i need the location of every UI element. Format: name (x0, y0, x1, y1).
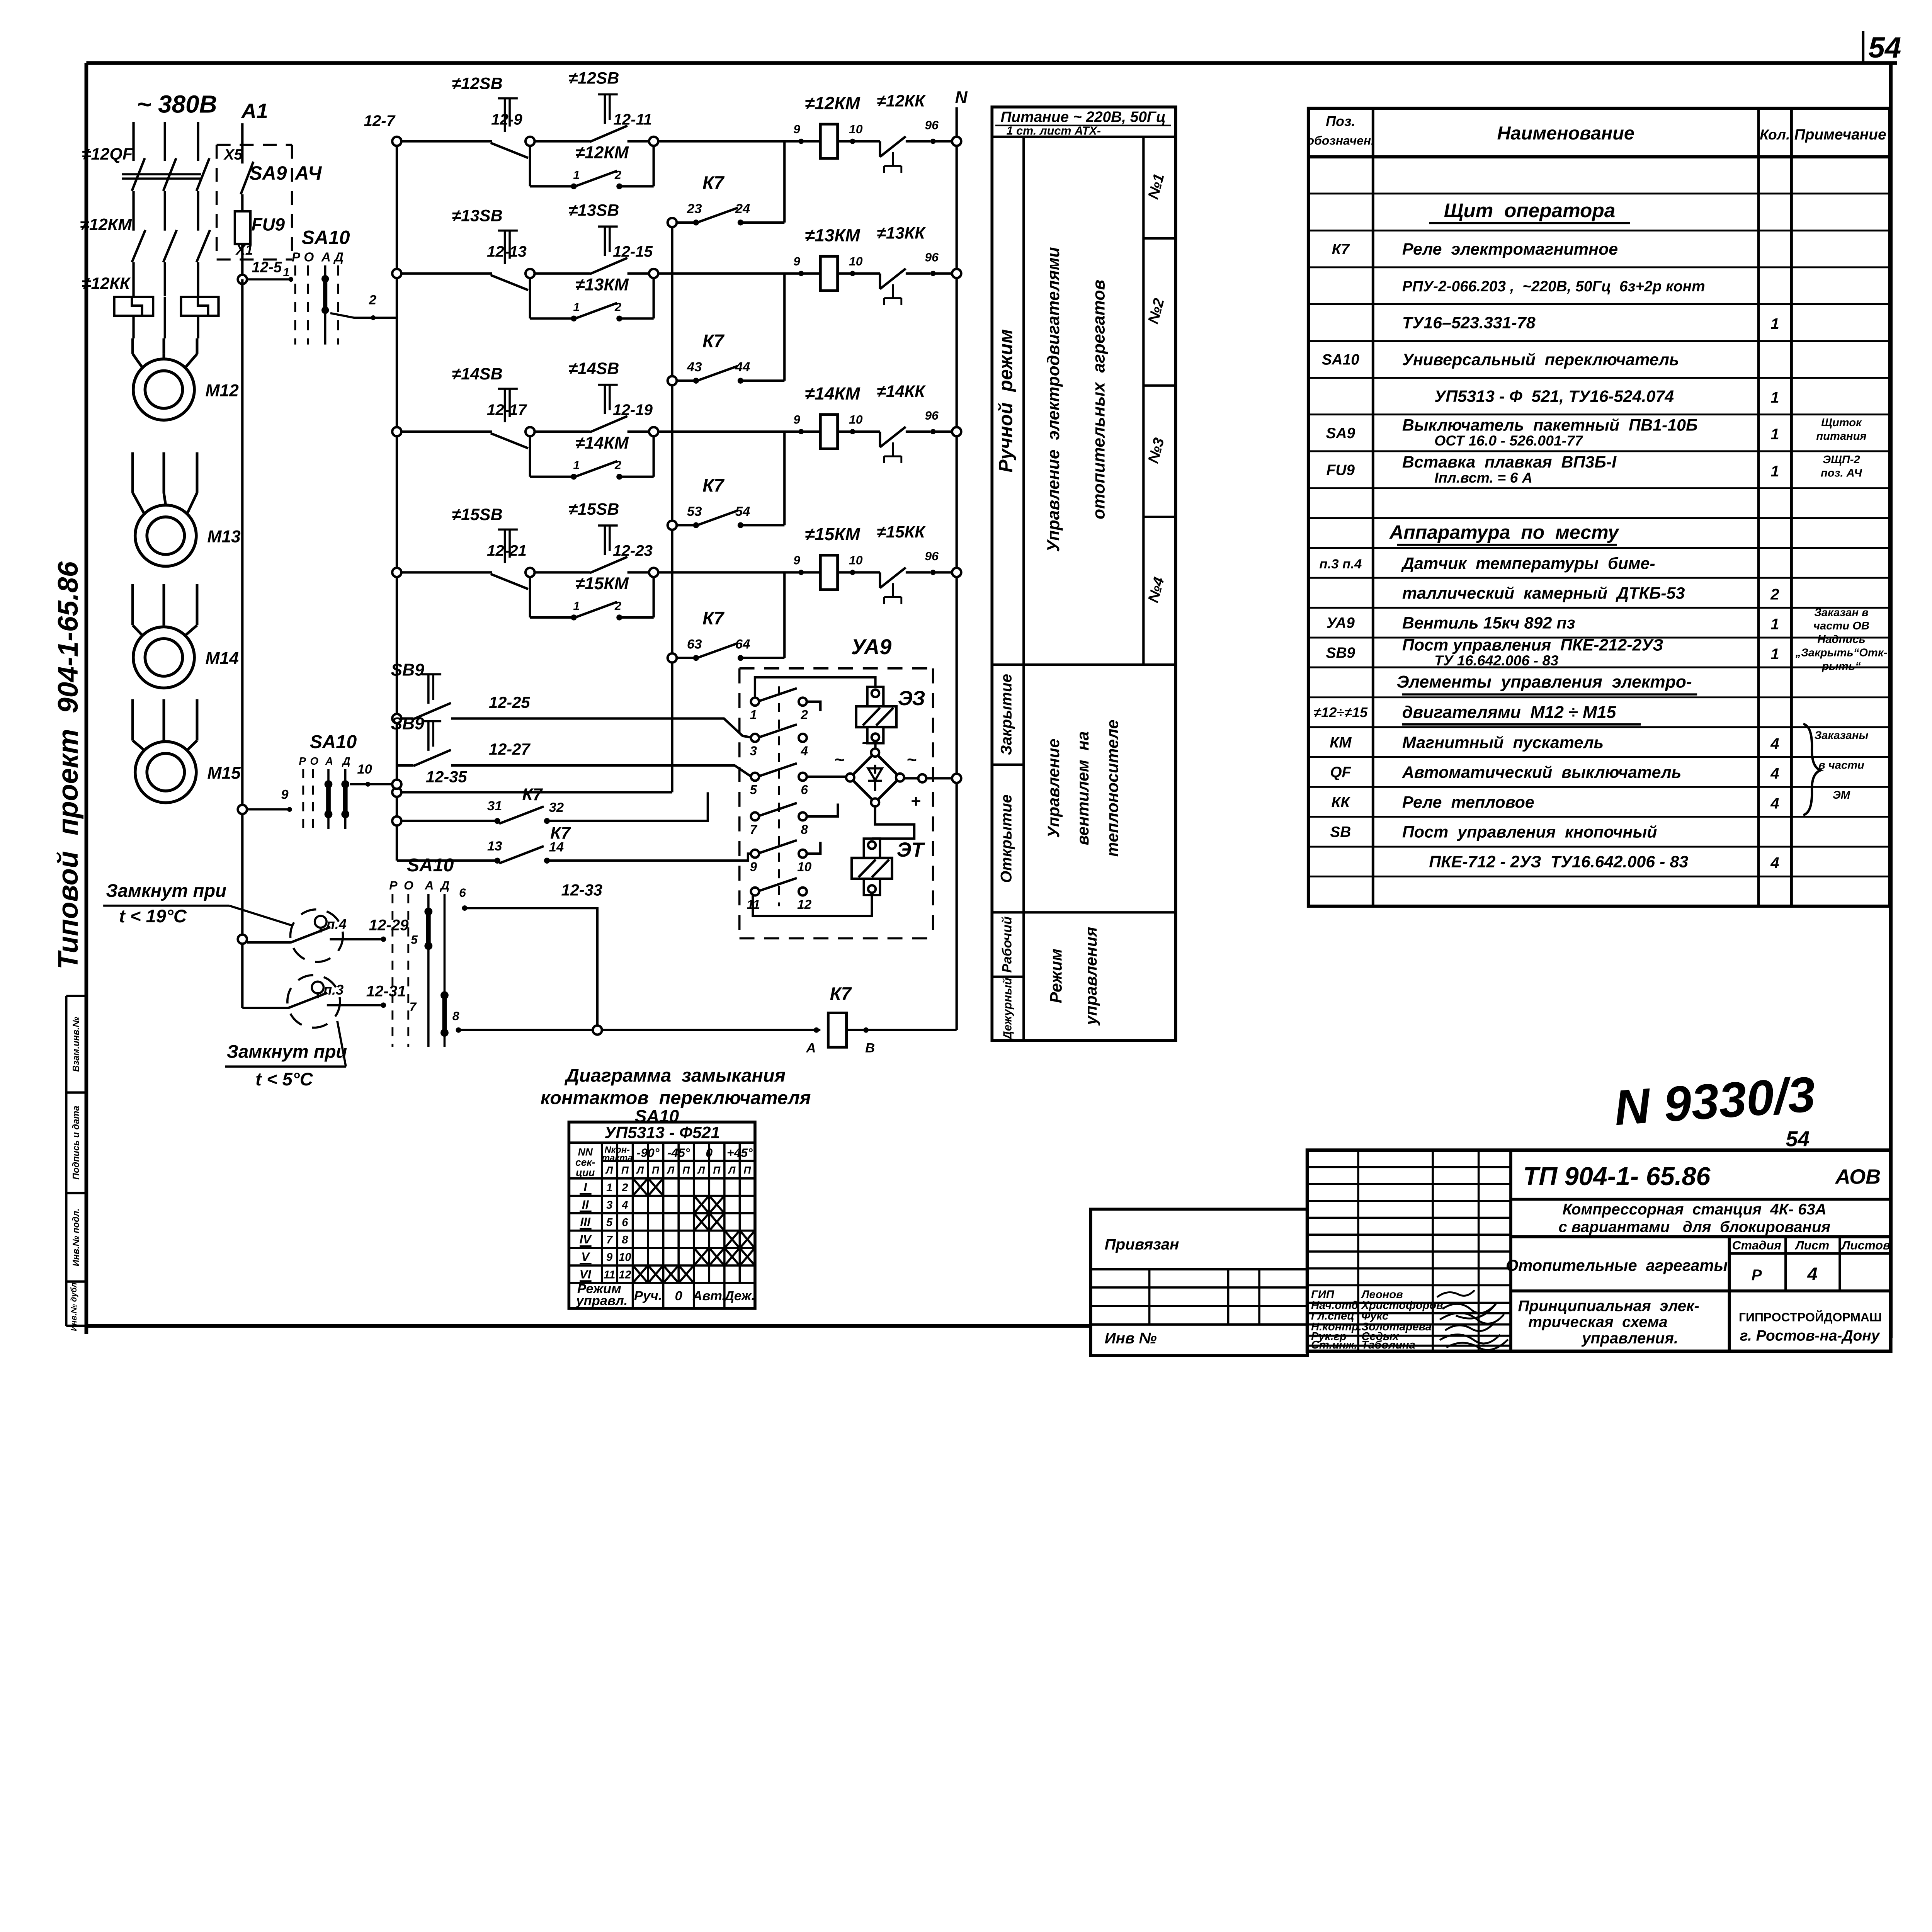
parts row КК (1331, 789, 1850, 812)
parts row SB9 (1326, 633, 1888, 672)
svg-text:Реле тепловое: Реле тепловое (1402, 793, 1534, 812)
svg-text:управл.: управл. (575, 1294, 628, 1308)
svg-text:К7: К7 (1332, 241, 1350, 258)
УА9 switch contact 11-12 (747, 878, 811, 912)
svg-text:Заказан в: Заказан в (1814, 607, 1869, 619)
pushbutton SB9 (row 12-27) (397, 764, 413, 767)
svg-text:12-29: 12-29 (369, 917, 409, 934)
NO pushbutton contact ≠12SB (568, 69, 627, 142)
SA10 diagram row I (580, 1179, 662, 1195)
svg-text:такта: такта (602, 1153, 633, 1163)
svg-text:2: 2 (621, 1182, 628, 1194)
parts row ПКЕ-712 (1429, 853, 1779, 872)
svg-text:Ст.инж.: Ст.инж. (1311, 1339, 1357, 1351)
svg-text:96: 96 (925, 250, 939, 264)
svg-text:УА9: УА9 (851, 635, 891, 659)
svg-text:12-11: 12-11 (614, 111, 652, 128)
svg-text:-45°: -45° (667, 1146, 690, 1160)
NC pushbutton contact ≠14SB (452, 365, 528, 448)
svg-text:I: I (583, 1180, 587, 1194)
svg-text:контактов переключателя: контактов переключателя (541, 1087, 811, 1108)
contactor coil ≠14КМ (793, 384, 863, 449)
svg-text:≠14КК: ≠14КК (877, 382, 926, 401)
solenoid ЭЗ (856, 687, 925, 753)
node 12-5 wire to SA10 (238, 259, 293, 284)
svg-text:АЧ: АЧ (294, 162, 322, 184)
motor М15 (133, 699, 241, 803)
svg-text:Инв.№ подл.: Инв.№ подл. (71, 1208, 81, 1266)
NC pushbutton contact ≠15SB (452, 505, 528, 589)
parts row SA9 (1326, 416, 1867, 449)
NC pushbutton contact ≠13SB (452, 206, 528, 290)
SA10 diagram row IV (580, 1232, 754, 1247)
svg-text:отопительных агрегатов: отопительных агрегатов (1090, 280, 1109, 519)
svg-text:трическая схема: трическая схема (1528, 1313, 1668, 1331)
svg-text:Авт.: Авт. (692, 1289, 726, 1303)
svg-text:Ручной режим: Ручной режим (995, 329, 1016, 473)
svg-text:Р: Р (299, 755, 306, 767)
svg-text:в части: в части (1818, 759, 1864, 771)
svg-text:~: ~ (834, 750, 844, 769)
svg-text:12-15: 12-15 (613, 243, 653, 260)
svg-text:К7: К7 (830, 983, 852, 1004)
svg-text:12-33: 12-33 (561, 881, 602, 899)
svg-text:Л: Л (667, 1165, 675, 1176)
K7 pilot-relay vertical link (670, 223, 674, 792)
svg-text:≠13КМ: ≠13КМ (575, 275, 629, 294)
svg-text:К7: К7 (702, 331, 725, 351)
svg-text:В: В (865, 1041, 875, 1055)
svg-text:Элементы управления электро-: Элементы управления электро- (1397, 673, 1692, 692)
svg-text:54: 54 (735, 504, 750, 519)
svg-text:ции: ции (576, 1167, 595, 1178)
svg-text:SB9: SB9 (391, 714, 424, 733)
svg-text:ТП 904-1- 65.86: ТП 904-1- 65.86 (1523, 1162, 1711, 1191)
svg-text:п.4: п.4 (327, 916, 347, 932)
svg-text:12-7: 12-7 (364, 112, 396, 129)
svg-text:12-9: 12-9 (491, 111, 522, 128)
parts row QF (1330, 759, 1864, 782)
svg-text:43: 43 (687, 360, 702, 374)
node 12-19 (613, 401, 820, 436)
node 12-13 (487, 243, 590, 278)
node 96 on N bus (14КМ) (952, 427, 961, 436)
svg-text:1: 1 (573, 301, 580, 314)
thermal relay contact ≠14КК (838, 382, 952, 463)
SA10 linkage dashed line in УА9 (777, 686, 780, 906)
svg-text:Х5: Х5 (223, 146, 243, 163)
svg-text:≠12SB: ≠12SB (568, 69, 619, 87)
svg-text:12-31: 12-31 (366, 982, 406, 1000)
svg-text:1: 1 (606, 1182, 612, 1194)
svg-text:63: 63 (687, 637, 702, 651)
svg-text:ПКЕ-712 - 2УЗ ТУ16.642.006 -: ПКЕ-712 - 2УЗ ТУ16.642.006 - 83 (1429, 853, 1688, 871)
left margin stamp column (66, 996, 86, 1331)
wire bridge output to K7 coil (955, 778, 958, 1030)
svg-text:≠15SB: ≠15SB (568, 500, 619, 519)
svg-text:Инв.№ дубл.: Инв.№ дубл. (70, 1280, 78, 1331)
svg-text:Л: Л (728, 1165, 736, 1176)
motor М12 (133, 338, 239, 420)
svg-text:≠13SB: ≠13SB (568, 201, 619, 220)
svg-text:10: 10 (849, 412, 863, 426)
title block middle row (1506, 1237, 1891, 1351)
svg-text:≠13КМ: ≠13КМ (805, 225, 860, 245)
wire node 9 (A1 to SA10) (238, 787, 292, 814)
thermal relay contact ≠12КК (838, 92, 952, 173)
svg-text:Р: Р (1752, 1266, 1762, 1284)
parts row: section Элементы управления (1397, 673, 1697, 694)
svg-text:К7: К7 (702, 608, 725, 628)
parts row: section Щит оператора (1429, 199, 1630, 223)
wire contact 2 jog (807, 702, 820, 711)
svg-text:≠14КМ: ≠14КМ (805, 384, 860, 403)
svg-text:≠14SB: ≠14SB (452, 365, 502, 383)
svg-text:10: 10 (849, 122, 863, 136)
svg-text:1: 1 (573, 600, 580, 613)
УА9 switch contact 3-4 (750, 724, 808, 759)
wire contact1 to ЭЗ (755, 677, 876, 698)
node 12-23 (613, 542, 820, 577)
svg-text:7: 7 (606, 1234, 613, 1246)
svg-text:Компрессорная станция 4К- 63: Компрессорная станция 4К- 63А (1563, 1201, 1827, 1218)
wire ЭТ to contact 11 (753, 895, 872, 916)
svg-text:-90°: -90° (637, 1146, 660, 1160)
svg-text:9: 9 (281, 787, 289, 802)
svg-text:9: 9 (793, 254, 800, 268)
svg-text:SA10: SA10 (310, 731, 357, 752)
parts row РПУ (1402, 278, 1705, 295)
svg-text:Лист: Лист (1795, 1238, 1830, 1252)
svg-text:П: П (652, 1165, 660, 1176)
svg-text:„Закрыть“Отк-: „Закрыть“Отк- (1795, 647, 1888, 659)
svg-text:≠12КМ: ≠12КМ (80, 215, 132, 234)
wire bridge to N bus (904, 774, 961, 783)
svg-text:Пост управления ПКЕ-212-2УЗ: Пост управления ПКЕ-212-2УЗ (1402, 636, 1663, 654)
node 96 on N bus (15КМ) (952, 568, 961, 577)
svg-text:+: + (911, 792, 921, 811)
svg-text:Iпл.вст. = 6 А: Iпл.вст. = 6 А (1434, 469, 1532, 486)
three phase supply lines (134, 122, 198, 161)
NO pushbutton contact ≠13SB (568, 201, 627, 274)
svg-text:SA9: SA9 (249, 162, 287, 184)
title block document number row (1511, 1162, 1891, 1199)
svg-text:t < 19°С: t < 19°С (119, 906, 187, 926)
svg-text:12: 12 (619, 1269, 631, 1281)
svg-text:14: 14 (549, 840, 564, 855)
svg-text:10: 10 (357, 762, 372, 777)
relay contact K7 (63-64) (668, 572, 785, 662)
svg-text:Вентиль 15кч 892 пз: Вентиль 15кч 892 пз (1402, 614, 1575, 632)
svg-text:Управление электродвигателями: Управление электродвигателями (1044, 247, 1063, 552)
svg-text:Д: Д (439, 878, 449, 892)
self-hold contact 12КМ (1-2) (530, 143, 654, 189)
svg-text:8: 8 (622, 1234, 628, 1246)
svg-text:Щит оператора: Щит оператора (1444, 199, 1616, 221)
svg-text:Отопительные агрегаты: Отопительные агрегаты (1506, 1256, 1728, 1274)
fuse FU9 (235, 211, 285, 279)
svg-text:≠12КМ: ≠12КМ (805, 93, 860, 113)
label Питание ~220В,50Гц (995, 109, 1171, 138)
svg-text:ЭЗ: ЭЗ (898, 687, 925, 710)
parts row SA10 (1322, 350, 1679, 369)
svg-text:10: 10 (619, 1251, 631, 1264)
svg-text:≠14КМ: ≠14КМ (575, 434, 629, 452)
svg-text:Рабочий: Рабочий (1000, 917, 1014, 973)
svg-text:≠12÷≠15: ≠12÷≠15 (1313, 704, 1368, 720)
NO pushbutton contact ≠15SB (568, 500, 627, 573)
svg-text:А: А (325, 755, 333, 767)
svg-text:Заказаны: Заказаны (1815, 729, 1869, 742)
svg-text:9: 9 (606, 1251, 613, 1264)
svg-text:0: 0 (706, 1146, 713, 1160)
parts row ТУ16-523 (1402, 313, 1779, 332)
relay contact K7 (23-24) (668, 141, 785, 227)
svg-text:≠15КМ: ≠15КМ (805, 524, 860, 544)
switch SA9 (241, 145, 322, 211)
svg-text:2: 2 (1770, 585, 1779, 603)
svg-text:двигателями М12 ÷ М15: двигателями М12 ÷ М15 (1402, 703, 1617, 722)
svg-text:ТУ 16.642.006 - 83: ТУ 16.642.006 - 83 (1434, 652, 1558, 668)
svg-text:Р: Р (292, 250, 301, 265)
svg-text:24: 24 (735, 202, 750, 216)
svg-text:SA9: SA9 (1326, 425, 1355, 442)
svg-text:с вариантами для блокирован: с вариантами для блокирования (1558, 1218, 1830, 1235)
title block object name (1511, 1201, 1891, 1237)
title block signatures text (1311, 1289, 1443, 1351)
svg-text:Питание ~ 220В, 50Гц: Питание ~ 220В, 50Гц (1000, 109, 1165, 126)
ladder left bus (395, 141, 398, 861)
contactor coil ≠12КМ (793, 93, 863, 158)
svg-text:5: 5 (411, 932, 418, 946)
svg-text:управления: управления (1082, 927, 1100, 1026)
pushbutton SB9 (row 12-25) (392, 714, 413, 723)
callout closed at t<5C (225, 1021, 347, 1089)
svg-text:5: 5 (606, 1216, 613, 1229)
svg-text:8: 8 (801, 823, 808, 837)
svg-text:Реле электромагнитное: Реле электромагнитное (1402, 240, 1618, 259)
svg-text:А: А (321, 250, 331, 265)
svg-text:2: 2 (800, 708, 808, 722)
svg-text:FU9: FU9 (1327, 462, 1355, 479)
brace in notes column (1803, 724, 1820, 815)
svg-text:РПУ-2-066.203 , ~220В, 50Гц: РПУ-2-066.203 , ~220В, 50Гц 6з+2р конт (1402, 278, 1705, 295)
title block bottom row (1518, 1297, 1882, 1347)
УА9 switch contact 1-2 (750, 688, 808, 722)
SA10 diagram row II (580, 1197, 723, 1212)
svg-text:Привязан: Привязан (1105, 1235, 1179, 1253)
solenoid ЭТ (852, 838, 925, 895)
svg-text:Руч.: Руч. (634, 1289, 662, 1303)
svg-text:Выключатель пакетный ПВ1-10Б: Выключатель пакетный ПВ1-10Б (1402, 416, 1698, 434)
svg-text:Универсальный переключатель: Универсальный переключатель (1402, 350, 1679, 369)
parts row SB (1330, 823, 1657, 842)
drawing frame border (86, 63, 1897, 1338)
relay coil K7 (А-В) (602, 983, 957, 1055)
УА9 switch contact 7-8 (750, 803, 808, 837)
svg-text:Надпись: Надпись (1817, 633, 1865, 646)
svg-text:FU9: FU9 (252, 215, 285, 235)
parts table frame (1308, 108, 1889, 906)
sheet number 54 top right (1863, 31, 1901, 64)
svg-text:≠13КК: ≠13КК (877, 224, 926, 243)
svg-text:32: 32 (549, 800, 564, 815)
svg-text:таллический камерный ДТКБ-53: таллический камерный ДТКБ-53 (1402, 584, 1685, 602)
svg-text:Диаграмма замыкания: Диаграмма замыкания (564, 1065, 786, 1086)
svg-text:9: 9 (793, 553, 800, 567)
svg-text:ЭЩП-2: ЭЩП-2 (1823, 454, 1860, 466)
parts table header (1307, 113, 1886, 148)
svg-text:Поз.: Поз. (1326, 113, 1355, 129)
svg-text:Датчик температуры биме-: Датчик температуры биме- (1401, 554, 1655, 573)
svg-text:9: 9 (750, 860, 757, 874)
svg-text:≠12SB: ≠12SB (452, 74, 502, 93)
svg-text:12-25: 12-25 (489, 693, 530, 711)
node 96 on N bus (12КМ) (952, 137, 961, 146)
svg-text:SВ: SВ (1330, 824, 1351, 840)
svg-text:О: О (310, 755, 318, 767)
svg-text:1: 1 (1770, 425, 1779, 443)
self-hold contact 15КМ (1-2) (530, 574, 654, 620)
svg-text:Стадия: Стадия (1732, 1238, 1781, 1252)
svg-text:–: – (862, 731, 873, 752)
svg-text:N: N (955, 88, 968, 107)
thermal relay heaters KK (≠12КК) (82, 274, 219, 338)
svg-text:4: 4 (621, 1199, 628, 1211)
relay contact K7 (13-14) (397, 823, 755, 864)
parts row п.3 п.4 (1319, 554, 1655, 573)
svg-text:1: 1 (573, 168, 580, 182)
svg-text:1: 1 (1770, 616, 1779, 633)
motor М13 (133, 452, 241, 566)
svg-text:9: 9 (793, 122, 800, 136)
svg-text:1: 1 (1770, 463, 1779, 480)
title block signature grid (1307, 1150, 1511, 1351)
svg-text:О: О (404, 878, 413, 892)
svg-text:АОВ: АОВ (1835, 1165, 1881, 1188)
svg-text:УА9: УА9 (1327, 615, 1355, 631)
svg-text:8: 8 (452, 1009, 459, 1023)
SA10 diagram header text (575, 1123, 753, 1178)
svg-text:96: 96 (925, 549, 939, 563)
svg-text:VI: VI (580, 1267, 592, 1281)
svg-text:ЭТ: ЭТ (897, 838, 925, 861)
motor М14 (133, 584, 238, 688)
node 12-9 (491, 111, 590, 146)
svg-text:К7: К7 (702, 172, 725, 193)
parts row ≠12÷≠15 (1313, 703, 1641, 724)
svg-text:А: А (424, 878, 434, 892)
УА9 switch contact 9-10 (750, 840, 811, 874)
parts row ДТКБ (1402, 584, 1779, 603)
svg-text:Д: Д (333, 250, 344, 265)
parts table row lines (1308, 194, 1889, 906)
labels №1-№4 (vertical) (1145, 172, 1168, 604)
title: Диаграмма замыкания контактов переключателя SA10 (541, 1065, 811, 1126)
svg-text:≠12QF: ≠12QF (82, 145, 133, 163)
wire 12-27 (451, 740, 751, 776)
svg-text:+45°: +45° (727, 1146, 753, 1160)
svg-text:Примечание: Примечание (1794, 126, 1886, 143)
svg-text:Х1: Х1 (235, 242, 253, 258)
svg-text:≠15КК: ≠15КК (877, 523, 926, 541)
svg-text:64: 64 (735, 637, 750, 651)
circuit breaker QF (≠12QF) 3-pole (82, 145, 209, 231)
parts row K7 (1332, 240, 1618, 259)
contactor coil ≠15КМ (793, 524, 863, 590)
svg-text:А: А (806, 1041, 816, 1055)
svg-text:П: П (713, 1165, 721, 1176)
title block frame (1307, 1150, 1891, 1351)
svg-text:Дежурный: Дежурный (1001, 978, 1014, 1041)
svg-text:II: II (582, 1197, 589, 1211)
wire contact 10 jog (807, 842, 820, 854)
svg-text:54: 54 (1868, 31, 1901, 64)
svg-text:части ОВ: части ОВ (1813, 620, 1869, 632)
temperature sensor contact п.3 (242, 975, 417, 1028)
parts row FU9 (1327, 453, 1863, 486)
svg-text:t < 5°С: t < 5°С (255, 1069, 313, 1089)
SA10 diagram bottom row (575, 1282, 755, 1308)
wire 12-35 (392, 768, 672, 797)
switch SA10 section (panel feed) (292, 226, 350, 344)
svg-text:Открытие: Открытие (997, 794, 1015, 883)
svg-text:Взам.инв.№: Взам.инв.№ (71, 1017, 81, 1072)
svg-text:96: 96 (925, 118, 939, 132)
svg-text:1: 1 (1770, 389, 1779, 406)
signature squiggles (1437, 1290, 1508, 1350)
svg-text:теплоносителе: теплоносителе (1103, 720, 1122, 857)
svg-text:Закрытие: Закрытие (997, 674, 1015, 755)
wire 12-25 (451, 693, 751, 737)
svg-text:4: 4 (1770, 765, 1779, 782)
svg-text:7: 7 (750, 823, 757, 837)
svg-text:Режим: Режим (1047, 949, 1066, 1003)
svg-text:10: 10 (849, 553, 863, 567)
svg-text:КМ: КМ (1330, 734, 1352, 751)
svg-text:SВ9: SВ9 (1326, 645, 1355, 662)
rectifier bridge (834, 731, 921, 811)
label Управление вентилем на теплоносителе (vertical) (1044, 720, 1122, 857)
svg-text:сек-: сек- (575, 1156, 595, 1168)
svg-text:≠15SB: ≠15SB (452, 505, 502, 524)
svg-text:Инв №: Инв № (1105, 1329, 1161, 1347)
svg-text:ТУ16–523.331-78: ТУ16–523.331-78 (1402, 313, 1536, 332)
control rung 13КМ (392, 269, 492, 278)
svg-text:Пост управления кнопочный: Пост управления кнопочный (1402, 823, 1657, 842)
svg-text:≠12КК: ≠12КК (82, 274, 131, 293)
svg-text:А1: А1 (241, 99, 268, 122)
callout closed at t<19C (103, 880, 292, 926)
svg-text:Подпись и дата: Подпись и дата (71, 1106, 81, 1180)
svg-text:4: 4 (800, 744, 808, 759)
svg-text:Д: Д (342, 755, 350, 767)
wire bridge plus to ЭТ (872, 806, 914, 838)
relay contact K7 (43-44) (668, 274, 785, 385)
svg-text:1: 1 (283, 266, 290, 279)
svg-text:Аппаратура по месту: Аппаратура по месту (1389, 522, 1619, 543)
svg-text:~: ~ (906, 750, 917, 769)
svg-text:≠12КК: ≠12КК (877, 92, 926, 110)
svg-text:~ 380В: ~ 380В (137, 90, 217, 118)
svg-text:М15: М15 (207, 764, 241, 783)
svg-text:12-5: 12-5 (252, 259, 282, 276)
svg-text:23: 23 (687, 202, 702, 216)
valve unit УА9 dashed enclosure (740, 635, 933, 938)
svg-text:Р: Р (389, 878, 398, 892)
svg-text:V: V (581, 1250, 590, 1264)
node 12-17 (487, 401, 590, 436)
